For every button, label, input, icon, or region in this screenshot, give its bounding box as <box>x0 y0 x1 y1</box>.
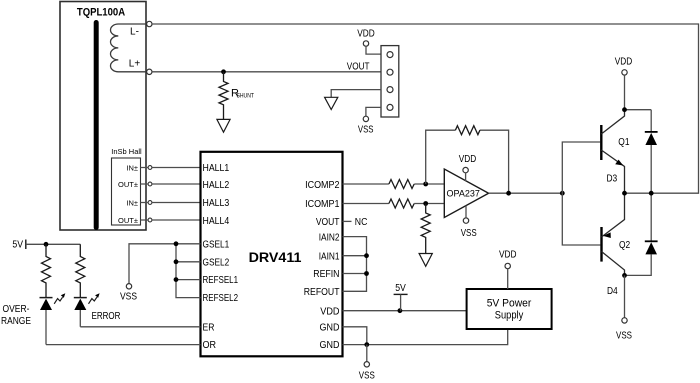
diode D4 <box>625 193 658 275</box>
wire: collector junction to diode column <box>625 109 652 111</box>
L- terminal <box>147 21 152 26</box>
wire: L+ to connector <box>152 71 381 73</box>
svg-text:VDD: VDD <box>320 306 339 318</box>
wire: Q2 collector to VSS <box>624 275 626 317</box>
svg-text:VSS: VSS <box>120 291 137 302</box>
svg-text:VDD: VDD <box>357 28 375 39</box>
svg-text:ICOMP1: ICOMP1 <box>305 199 339 211</box>
sensor module TQPL100A box <box>60 2 146 231</box>
VSS terminal (GSEL) <box>126 284 131 289</box>
wire: connector pin4 to VSS <box>366 107 381 116</box>
svg-text:HALL4: HALL4 <box>203 215 230 227</box>
junction dots output stage <box>622 191 654 278</box>
GSEL/REFSEL strap wires <box>129 244 201 298</box>
svg-text:HALL2: HALL2 <box>203 179 230 191</box>
svg-text:VSS: VSS <box>461 227 477 238</box>
svg-text:Q1: Q1 <box>618 136 629 147</box>
svg-text:OUT±: OUT± <box>118 180 138 189</box>
svg-text:GSEL1: GSEL1 <box>203 237 230 249</box>
svg-text:HALL3: HALL3 <box>203 197 230 209</box>
svg-text:5V Power: 5V Power <box>487 297 532 309</box>
feedback resistor R5 <box>426 126 509 193</box>
hall wires to DRV411 <box>141 168 201 221</box>
wire: GND1 <box>343 327 367 345</box>
svg-text:Supply: Supply <box>495 310 524 322</box>
VSS terminal (bottom) <box>366 345 368 362</box>
DRV411 left pin labels <box>203 163 239 352</box>
hall pin terminals <box>148 166 152 222</box>
svg-text:L-: L- <box>130 27 139 38</box>
svg-text:TQPL100A: TQPL100A <box>77 7 126 19</box>
svg-text:NC: NC <box>355 216 368 227</box>
wire: VDD pin to supply <box>343 310 467 312</box>
svg-text:REFOUT: REFOUT <box>304 286 340 298</box>
svg-text:IAIN2: IAIN2 <box>319 230 340 242</box>
svg-text:VDD: VDD <box>615 56 633 67</box>
svg-text:VSS: VSS <box>359 370 375 381</box>
svg-text:OVER-: OVER- <box>3 303 30 314</box>
svg-text:IAIN1: IAIN1 <box>319 249 340 261</box>
DRV411 right pin labels <box>304 180 340 352</box>
svg-text:HALL1: HALL1 <box>203 163 230 175</box>
svg-text:IN±: IN± <box>126 163 138 172</box>
VSS terminal (connector) <box>363 116 368 121</box>
VDD terminal (supply) <box>499 249 517 289</box>
svg-text:VDD: VDD <box>459 153 477 164</box>
svg-text:OR: OR <box>203 340 217 352</box>
resistor RSHUNT <box>219 69 254 119</box>
svg-text:L+: L+ <box>129 59 141 70</box>
svg-text:GND: GND <box>319 340 339 352</box>
LED D1 over-range <box>40 293 66 344</box>
svg-text:DRV411: DRV411 <box>249 249 302 265</box>
svg-text:REFSEL1: REFSEL1 <box>203 274 239 285</box>
ground (RSHUNT) <box>217 119 230 132</box>
transistor Q1 <box>601 110 629 194</box>
wire: GND2 to supply return <box>343 329 508 345</box>
5V power supply box <box>467 289 552 329</box>
svg-text:VSS: VSS <box>616 330 632 341</box>
wire+resistor R4 ICOMP1 to opamp <box>343 199 445 208</box>
svg-text:GSEL2: GSEL2 <box>203 255 230 267</box>
svg-text:5V: 5V <box>395 283 406 294</box>
5V supply (left) <box>12 239 80 250</box>
svg-text:Q2: Q2 <box>619 240 630 251</box>
wire: base drive <box>562 142 600 245</box>
transistor Q2 <box>602 193 631 275</box>
wire+resistor R3 ICOMP2 to opamp <box>343 180 445 189</box>
magnetic core <box>94 23 99 228</box>
svg-text:OPA237: OPA237 <box>447 189 480 199</box>
svg-text:ER: ER <box>203 322 215 334</box>
svg-text:ICOMP2: ICOMP2 <box>305 180 339 192</box>
ground (connector) <box>325 97 338 109</box>
IAIN/REF strap wires <box>343 237 367 292</box>
resistor R6 to ground <box>421 204 430 254</box>
svg-text:ERROR: ERROR <box>92 310 121 321</box>
svg-text:VDD: VDD <box>499 249 517 260</box>
svg-text:D4: D4 <box>607 285 618 296</box>
wire: connector pin3 to ground <box>331 90 381 98</box>
L+ terminal <box>147 69 152 74</box>
svg-text:VOUT: VOUT <box>347 61 370 72</box>
VDD terminal (top) <box>357 28 381 54</box>
wire: L- loop to output stage mid rail <box>152 24 699 193</box>
VOUT NC stub <box>343 220 352 222</box>
svg-text:RANGE: RANGE <box>1 315 31 326</box>
5V supply (mid) <box>394 283 408 311</box>
svg-text:InSb Hall: InSb Hall <box>111 147 142 156</box>
svg-text:REFSEL2: REFSEL2 <box>203 292 239 303</box>
resistor R1 (over-range) <box>42 244 51 297</box>
svg-text:VOUT: VOUT <box>316 216 340 228</box>
LED D2 error <box>74 293 100 327</box>
DRV411 box <box>201 152 343 356</box>
VDD terminal (right) <box>615 56 633 110</box>
svg-text:IN±: IN± <box>126 198 138 207</box>
ground (opamp input) <box>419 254 432 267</box>
connector J1 <box>381 46 399 117</box>
svg-text:D3: D3 <box>607 173 618 184</box>
wire: OR <box>46 344 201 346</box>
junction dots GSEL <box>174 241 179 282</box>
wire: opamp output <box>489 192 563 194</box>
wire: ER <box>80 326 200 328</box>
VSS terminal (right) <box>622 318 627 323</box>
svg-text:OUT±: OUT± <box>118 216 138 225</box>
svg-text:SHUNT: SHUNT <box>237 93 255 100</box>
compensation coil <box>111 24 147 72</box>
svg-text:VSS: VSS <box>358 123 374 134</box>
op-amp U1 OPA237 <box>444 153 488 238</box>
svg-text:5V: 5V <box>12 239 23 250</box>
hall element box InSb Hall <box>111 147 142 225</box>
svg-text:REFIN: REFIN <box>313 269 339 281</box>
resistor R2 (error) <box>76 244 85 297</box>
svg-text:GND: GND <box>319 322 339 334</box>
diode D3 <box>645 110 658 194</box>
